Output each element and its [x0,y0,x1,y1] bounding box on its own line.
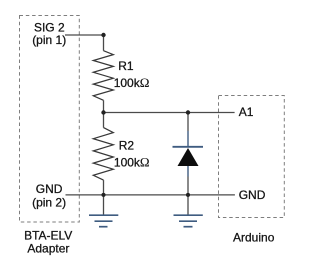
svg-text:R1: R1 [118,59,134,73]
svg-text:A1: A1 [239,105,254,119]
svg-text:R2: R2 [119,139,135,153]
svg-text:(pin 2): (pin 2) [32,195,66,209]
svg-text:(pin 1): (pin 1) [32,33,66,47]
svg-text:100kΩ: 100kΩ [114,75,150,90]
svg-text:Arduino: Arduino [233,231,275,245]
svg-text:BTA-ELV: BTA-ELV [24,229,72,243]
svg-text:GND: GND [239,188,266,202]
svg-text:100kΩ: 100kΩ [114,154,150,169]
svg-text:Adapter: Adapter [27,242,69,256]
svg-text:GND: GND [36,182,63,196]
